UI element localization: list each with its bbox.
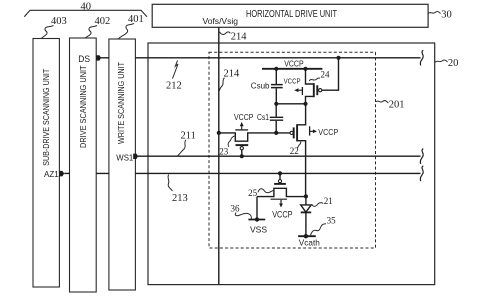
- box: WRITE SCANNING UNIT: [109, 39, 135, 290]
- svg-text:401: 401: [128, 14, 144, 25]
- box: HORIZONTAL DRIVE UNIT: [152, 4, 428, 27]
- svg-text:HORIZONTAL DRIVE UNIT: HORIZONTAL DRIVE UNIT: [246, 9, 337, 20]
- leader 402: [86, 26, 98, 38]
- leader 21: [312, 203, 324, 207]
- panel 20 border: [148, 43, 435, 285]
- svg-text:AZ1: AZ1: [44, 169, 59, 179]
- leader 24: [309, 78, 320, 81]
- node dot T22source-T25-diode: [304, 194, 308, 198]
- leader 22: [297, 142, 301, 149]
- svg-text:201: 201: [389, 100, 405, 111]
- svg-text:VCCP: VCCP: [234, 113, 253, 122]
- node dot Vcath: [304, 234, 308, 238]
- wire node line under rail: [276, 103, 305, 105]
- svg-text:212: 212: [166, 80, 182, 91]
- wire WS row line: [138, 155, 421, 157]
- terminal bar Vcath: [298, 235, 316, 237]
- svg-text:36: 36: [231, 204, 241, 214]
- dashed pixel box 201: [209, 52, 376, 248]
- node dot left: [274, 102, 278, 106]
- svg-text:DRIVE SCANNING UNIT: DRIVE SCANNING UNIT: [79, 65, 88, 148]
- brace under 40: [24, 10, 147, 16]
- svg-text:Vofs/Vsig: Vofs/Vsig: [203, 16, 239, 26]
- svg-text:WS1: WS1: [116, 152, 133, 162]
- node dot rail-Csub: [274, 67, 278, 71]
- node dot Cs1-gateline: [274, 131, 278, 135]
- svg-text:211: 211: [181, 131, 196, 142]
- leader 403: [42, 26, 54, 39]
- wire AZ row line: [64, 172, 420, 174]
- wire DS row line: [101, 57, 421, 59]
- svg-text:Vcath: Vcath: [299, 237, 320, 247]
- svg-text:213: 213: [172, 193, 188, 204]
- leader 211: [178, 140, 187, 156]
- break symbol WS line: [420, 149, 423, 164]
- svg-text:VCCP: VCCP: [318, 128, 338, 137]
- svg-text:21: 21: [324, 196, 333, 206]
- diode OLED 21: [305, 196, 307, 205]
- break symbol AZ line: [420, 166, 423, 181]
- leader 36: [235, 213, 251, 219]
- leader 35: [311, 224, 327, 236]
- wire T24 gate to DS line: [322, 58, 339, 90]
- wire VCCP rail: [262, 68, 322, 70]
- supply arrow at T22: [309, 126, 311, 135]
- AZ1 output marker: [59, 171, 64, 177]
- node dot rail-T24: [303, 67, 307, 71]
- leader 23: [228, 136, 235, 147]
- leader 214 inner: [219, 78, 224, 91]
- leader 401: [119, 24, 135, 39]
- capacitor Cs1: [275, 104, 277, 117]
- leader 214 top: [220, 32, 231, 35]
- svg-text:35: 35: [327, 215, 337, 225]
- WS1 output marker: [133, 154, 138, 159]
- node dot 214-T23: [217, 131, 221, 135]
- leader 201: [376, 101, 389, 103]
- box: SUB-DRIVE SCANNING UNIT: [33, 39, 59, 288]
- node dot AZ-T25gate: [278, 171, 282, 175]
- supply arrow at T23: [235, 129, 248, 131]
- svg-text:SUB-DRIVE SCANNING UNIT: SUB-DRIVE SCANNING UNIT: [42, 69, 51, 166]
- supply arrow at T24: [301, 87, 303, 95]
- svg-text:23: 23: [219, 146, 229, 156]
- DS output marker: [96, 55, 101, 60]
- svg-text:Cs1: Cs1: [257, 113, 269, 122]
- transistor T23 (sampling, lateral): [219, 133, 290, 141]
- terminal bar VSS: [248, 219, 265, 221]
- leader 20: [435, 60, 448, 62]
- svg-text:VCCP: VCCP: [284, 77, 301, 86]
- box: DRIVE SCANNING UNIT: [70, 38, 97, 292]
- svg-text:WRITE SCANNING UNIT: WRITE SCANNING UNIT: [117, 62, 126, 144]
- transistor T25 (lateral, gate top): [279, 173, 281, 179]
- supply arrow at T25: [271, 198, 288, 200]
- node dot VSS: [255, 217, 259, 221]
- svg-text:VSS: VSS: [250, 224, 267, 234]
- wire VSS branch: [256, 197, 258, 220]
- svg-text:214: 214: [224, 69, 241, 80]
- wire signal line 214 (vertical): [218, 27, 220, 284]
- svg-text:24: 24: [321, 69, 331, 79]
- svg-text:Csub: Csub: [251, 81, 270, 90]
- svg-text:25: 25: [248, 188, 258, 198]
- node dot WS-T23gate: [240, 154, 244, 158]
- transistor T24 (p-type, gate right): [306, 69, 314, 104]
- break symbol DS line: [420, 50, 423, 65]
- svg-text:20: 20: [448, 58, 459, 69]
- node dot right: [303, 102, 307, 106]
- node dot DS-T24gate: [336, 56, 340, 60]
- leader 213: [168, 175, 173, 192]
- svg-text:VCCP: VCCP: [272, 210, 292, 220]
- svg-text:30: 30: [441, 10, 452, 21]
- leader 212: [173, 60, 179, 78]
- svg-text:214: 214: [231, 31, 248, 42]
- transistor T22 (drive, gate left): [290, 131, 293, 134]
- capacitor Csub: [275, 69, 277, 84]
- leader 30: [428, 12, 440, 14]
- svg-text:DS: DS: [78, 54, 90, 65]
- svg-text:VCCP: VCCP: [284, 59, 304, 68]
- leader 25: [258, 189, 274, 193]
